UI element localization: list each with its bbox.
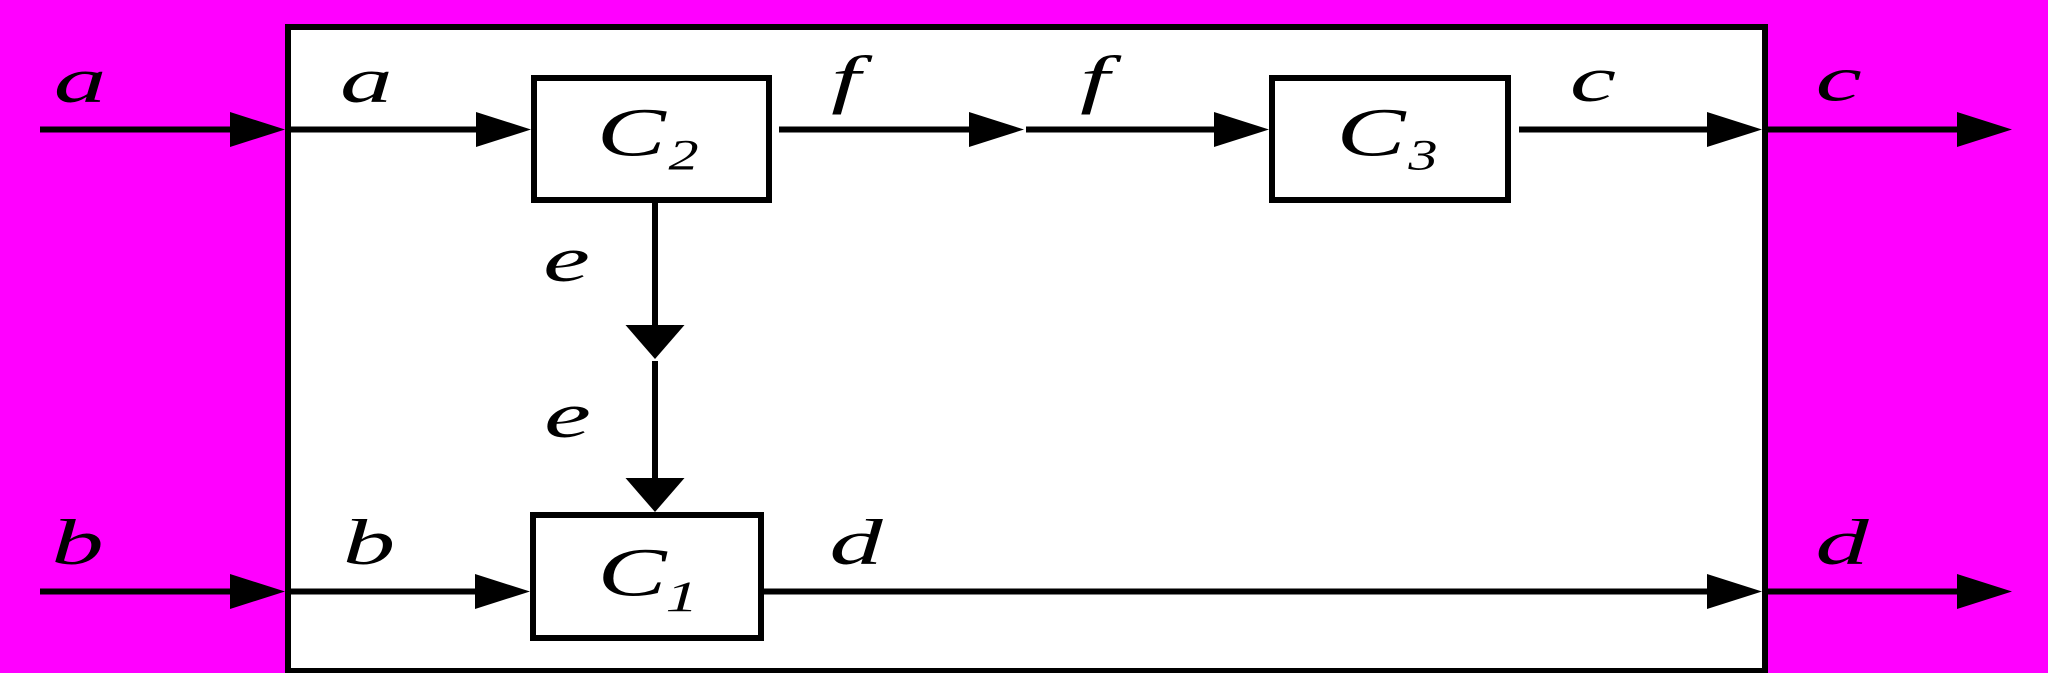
- wire c external: [1768, 112, 2012, 147]
- wire f to C3: [1026, 112, 1269, 147]
- wire e lower: [626, 361, 685, 512]
- svg-text:e: e: [543, 223, 590, 295]
- label a internal: [340, 44, 393, 116]
- svg-text:e: e: [544, 379, 591, 451]
- wire c internal: [1519, 112, 1762, 147]
- svg-text:d: d: [829, 507, 883, 579]
- label d external: [1815, 507, 1869, 579]
- label C3 subscript 3: [1407, 132, 1437, 180]
- svg-text:b: b: [343, 506, 395, 578]
- wire d internal: [764, 574, 1762, 609]
- wire d external: [1768, 574, 2012, 609]
- svg-text:c: c: [1816, 43, 1862, 115]
- wire a internal: [291, 112, 531, 147]
- label f right: [1080, 42, 1122, 114]
- label d internal: [829, 507, 883, 579]
- label b external: [51, 506, 103, 578]
- label C3: [1336, 95, 1407, 171]
- label b internal: [343, 506, 395, 578]
- svg-text:C: C: [597, 95, 668, 171]
- wire b external: [40, 574, 285, 609]
- label a external: [54, 44, 107, 116]
- svg-text:3: 3: [1407, 132, 1437, 180]
- svg-text:b: b: [51, 506, 103, 578]
- label C2 subscript 2: [668, 132, 698, 180]
- label c external: [1816, 43, 1862, 115]
- svg-text:C: C: [597, 535, 668, 611]
- label C2: [597, 95, 668, 171]
- label c internal: [1570, 43, 1616, 115]
- label C1: [597, 535, 668, 611]
- wire a external: [40, 112, 285, 147]
- label e lower: [544, 379, 591, 451]
- svg-text:c: c: [1570, 43, 1616, 115]
- svg-text:1: 1: [666, 573, 699, 621]
- component C2: [534, 78, 769, 200]
- label e upper: [543, 223, 590, 295]
- system boundary box: [288, 27, 1765, 671]
- svg-text:d: d: [1815, 507, 1869, 579]
- component C3: [1272, 78, 1508, 200]
- label C1 subscript 1: [666, 573, 699, 621]
- svg-text:a: a: [340, 44, 393, 116]
- svg-text:C: C: [1336, 95, 1407, 171]
- label f left: [831, 42, 873, 114]
- svg-text:a: a: [54, 44, 107, 116]
- wire e upper: [626, 203, 685, 359]
- svg-text:2: 2: [668, 132, 698, 180]
- wire f from C2: [779, 112, 1024, 147]
- wire b internal: [291, 574, 530, 609]
- component C1: [533, 515, 761, 638]
